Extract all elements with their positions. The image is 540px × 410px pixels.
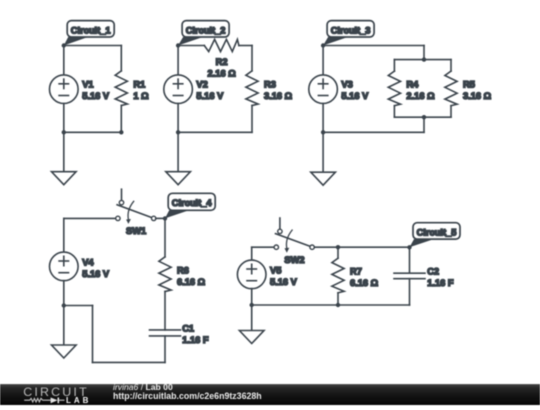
wire: R1 bottom lead	[120, 106, 122, 133]
resistor R7	[332, 258, 344, 293]
node junction dots circuit 1	[62, 43, 66, 47]
svg-text:http://circuitlab.com/c2e6n9tz: http://circuitlab.com/c2e6n9tz3628h	[113, 391, 262, 401]
svg-text:3.16 Ω: 3.16 Ω	[264, 91, 293, 101]
node junction dots circuit 3	[321, 43, 325, 47]
wire: bottom rail rise	[92, 306, 94, 363]
node junction dots circuit 4	[163, 216, 167, 220]
voltage source V5	[237, 260, 266, 289]
svg-text:R6: R6	[177, 265, 189, 275]
wire: ground stem circuit 4	[63, 306, 65, 346]
wire: V3 bottom lead	[322, 104, 324, 133]
switch SW1	[121, 189, 123, 200]
wire: node down to R6	[164, 218, 166, 257]
svg-text:1.16 F: 1.16 F	[427, 278, 454, 288]
wire: circuit 1 top rail	[64, 45, 122, 47]
svg-text:Circuit_2: Circuit_2	[186, 26, 226, 36]
ground circuit 1	[52, 172, 77, 185]
svg-text:5.16 V: 5.16 V	[341, 91, 369, 101]
svg-text:6.16 Ω: 6.16 Ω	[177, 277, 206, 287]
wire: V2 bottom lead	[177, 104, 179, 133]
wire: V5 bottom lead	[251, 289, 253, 305]
svg-text:Circuit_4: Circuit_4	[172, 198, 213, 208]
svg-text:R1: R1	[133, 79, 145, 89]
wire: R4 bottom lead	[393, 106, 395, 118]
svg-text:C2: C2	[427, 267, 439, 277]
wire: circuit 3 top rail	[323, 45, 424, 47]
svg-text:6.16 Ω: 6.16 Ω	[350, 278, 379, 288]
voltage source V4	[50, 252, 79, 281]
wire: node down to C2	[409, 247, 411, 273]
svg-text:R3: R3	[264, 79, 276, 89]
wire: circuit 2 left top	[177, 46, 179, 75]
wire: top rail drop to parallel bar	[423, 46, 425, 60]
svg-text:2.16 Ω: 2.16 Ω	[406, 91, 435, 101]
wire: C2 bottom lead	[409, 279, 411, 305]
wire: circuit 4 bottom rail	[93, 361, 166, 363]
capacitor C1	[150, 329, 181, 331]
svg-text:5.16 V: 5.16 V	[196, 91, 224, 101]
wire: circuit 1 right top lead	[120, 46, 122, 71]
ground circuit 5	[239, 331, 264, 344]
wire: R3 bottom lead	[251, 106, 253, 133]
node label Circuit_1	[64, 37, 88, 46]
svg-text:C1: C1	[182, 323, 194, 333]
wire: R5 bottom lead	[450, 106, 452, 118]
svg-text:SW2: SW2	[284, 255, 304, 265]
node junction dots circuit 5	[407, 245, 411, 249]
wire: R7 top lead	[337, 247, 339, 258]
ground circuit 2	[166, 172, 191, 185]
svg-text:V3: V3	[341, 79, 352, 89]
svg-text:1 Ω: 1 Ω	[133, 91, 149, 101]
wire: circuit 5 left top	[251, 247, 253, 260]
svg-text:Circuit_1: Circuit_1	[71, 26, 111, 36]
wire: circuit 4 top rail to switch	[64, 217, 116, 219]
wire: circuit 4 left top	[63, 218, 65, 252]
wire: to V4 bottom node	[64, 305, 93, 307]
wire: switch SW1 to node	[156, 217, 165, 219]
resistor R4	[388, 71, 400, 106]
switch SW2	[279, 218, 281, 229]
wire: R5 top lead	[450, 60, 452, 72]
wire: parallel bottom bar	[394, 116, 451, 118]
wire: R6 to C1	[164, 292, 166, 330]
wire: circuit 3 left top	[322, 46, 324, 75]
node label Circuit_3	[323, 37, 348, 46]
resistor R2 (horizontal)	[204, 39, 239, 51]
wire: circuit 1 left top	[63, 46, 65, 75]
wire: circuit 2 right top lead	[251, 46, 253, 71]
resistor R6	[159, 257, 171, 292]
capacitor C2	[394, 272, 425, 274]
logo diode	[51, 398, 58, 404]
wire: ground stem circuit 1	[63, 132, 65, 171]
wire: circuit 2 bottom rail	[178, 131, 252, 133]
wire: circuit 3 bottom rail	[323, 131, 424, 133]
svg-text:LAB: LAB	[66, 396, 91, 405]
voltage source V1	[50, 75, 79, 104]
wire: bar drop to bottom rail	[423, 117, 425, 132]
wire: ground stem circuit 5	[251, 305, 253, 331]
wire: C1 bottom lead	[164, 336, 166, 363]
wire: circuit 1 bottom rail	[64, 131, 122, 133]
wire: R4 top lead	[393, 60, 395, 72]
svg-text:V2: V2	[196, 79, 207, 89]
node label Circuit_2	[178, 37, 203, 46]
svg-text:1.16 F: 1.16 F	[182, 335, 209, 345]
voltage source V3	[309, 75, 338, 104]
svg-text:Circuit_5: Circuit_5	[417, 228, 457, 238]
svg-text:5.16 V: 5.16 V	[82, 91, 110, 101]
logo resistor zigzag	[24, 398, 50, 402]
wire: switch SW2 to node	[314, 246, 409, 248]
ground circuit 3	[311, 172, 336, 185]
svg-text:R7: R7	[350, 267, 362, 277]
svg-text:R5: R5	[463, 79, 475, 89]
wire: R7 bottom lead	[337, 293, 339, 305]
wire: V1 bottom lead	[63, 104, 65, 133]
wire: V4 bottom lead	[63, 281, 65, 306]
resistor R5	[445, 71, 457, 106]
resistor R3	[246, 71, 258, 106]
node label Circuit_4	[165, 210, 189, 218]
wire: ground stem circuit 3	[322, 132, 324, 172]
wire: R2 to corner	[239, 45, 252, 47]
voltage source V2	[164, 75, 193, 104]
svg-text:V1: V1	[82, 79, 93, 89]
resistor R1	[115, 71, 127, 106]
svg-text:3.16 Ω: 3.16 Ω	[463, 91, 492, 101]
svg-text:2.16 Ω: 2.16 Ω	[208, 68, 237, 78]
svg-text:Circuit_3: Circuit_3	[331, 26, 371, 36]
wire: circuit 2 top left	[178, 45, 204, 47]
wire: ground stem circuit 2	[177, 132, 179, 171]
wire: parallel top bar	[394, 59, 451, 61]
wire: circuit 5 top rail to switch	[252, 246, 274, 248]
node label Circuit_5	[410, 239, 434, 247]
svg-text:R2: R2	[216, 57, 228, 67]
svg-text:5.16 V: 5.16 V	[270, 277, 298, 287]
ground circuit 4	[52, 345, 77, 358]
svg-text:SW1: SW1	[126, 226, 146, 236]
node junction dots circuit 2	[176, 43, 180, 47]
wire: circuit 5 bottom rail	[252, 304, 410, 306]
svg-text:R4: R4	[406, 79, 419, 89]
svg-text:V4: V4	[82, 257, 94, 267]
svg-text:V5: V5	[270, 265, 281, 275]
svg-text:5.16 V: 5.16 V	[82, 269, 110, 279]
